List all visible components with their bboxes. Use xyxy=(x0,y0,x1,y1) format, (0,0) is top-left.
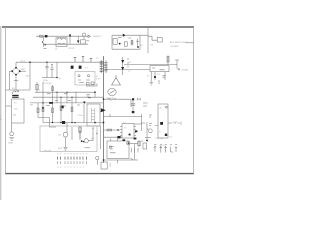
svg-text:C3 X2: C3 X2 xyxy=(68,48,75,50)
svg-text:470u: 470u xyxy=(43,80,49,82)
svg-text:G 5 12: G 5 12 xyxy=(159,145,166,147)
svg-text:ref: ref xyxy=(169,136,172,139)
svg-text:ATX SMPS 250W: ATX SMPS 250W xyxy=(170,41,188,44)
svg-text:+5VSB: +5VSB xyxy=(181,69,188,71)
svg-text:C5 200V: C5 200V xyxy=(43,83,52,85)
svg-text:r1 r2 r3: r1 r2 r3 xyxy=(106,96,114,99)
svg-text:GT-8092: GT-8092 xyxy=(170,46,179,48)
svg-text:3.5T: 3.5T xyxy=(96,79,101,81)
svg-text:+300VDC: +300VDC xyxy=(92,36,102,38)
svg-text:C 10u: C 10u xyxy=(77,115,84,117)
svg-text:+5V +12: +5V +12 xyxy=(155,138,164,140)
svg-text:GND: GND xyxy=(8,143,13,145)
svg-text:CN: CN xyxy=(14,108,18,110)
svg-text:+12V: +12V xyxy=(172,121,178,123)
svg-text:~AC: ~AC xyxy=(25,74,30,77)
svg-text:PS-ON: PS-ON xyxy=(44,150,51,152)
